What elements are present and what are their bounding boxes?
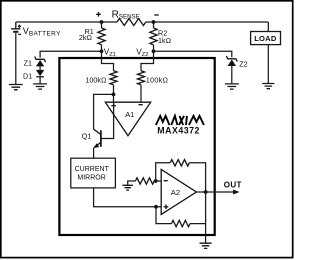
wire 100k left to A1 <box>113 85 115 102</box>
wire top rail mid <box>146 21 268 23</box>
ground Z2 <box>225 84 239 89</box>
node output <box>204 190 208 194</box>
svg-text:1kΩ: 1kΩ <box>158 36 171 45</box>
wire R1 to VZ1 <box>101 45 103 52</box>
plus sign at RS+ <box>96 12 101 17</box>
wire feedback bottom left <box>156 207 172 224</box>
node A2 plus input <box>154 205 158 209</box>
wire top rail left <box>16 21 117 23</box>
wire feedback top right <box>189 163 205 192</box>
wire current mirror to A2 plus <box>94 188 162 207</box>
minus sign at RS- <box>154 14 158 16</box>
svg-text:VZ2: VZ2 <box>136 48 148 59</box>
svg-text:Z1: Z1 <box>24 58 32 67</box>
wire VZ2 jog into IC <box>141 51 154 71</box>
arrow OUT <box>233 190 239 195</box>
resistor R2 <box>150 28 157 45</box>
wire A1 output to Q1 base <box>101 102 114 138</box>
node RS+ <box>100 20 104 24</box>
ground LOAD <box>262 84 274 89</box>
logo MAXIM <box>156 116 204 125</box>
wire R1 stub <box>101 22 103 28</box>
wire A2 minus input <box>156 180 162 182</box>
svg-text:MAX4372: MAX4372 <box>157 125 200 135</box>
wire VZ1 jog into IC <box>102 51 114 71</box>
battery VBATTERY <box>11 22 20 29</box>
op-amp A2 <box>161 169 196 214</box>
svg-text:CURRENT: CURRENT <box>75 166 110 173</box>
svg-text:LOAD: LOAD <box>254 34 277 43</box>
wire Z1 to D1 <box>39 66 41 70</box>
svg-text:VZ1: VZ1 <box>104 48 116 59</box>
node A1 plus input <box>112 93 116 97</box>
resistor 100k right <box>138 71 145 85</box>
svg-text:Z2: Z2 <box>239 59 247 68</box>
wire battery down <box>15 33 17 84</box>
node VZ1 <box>100 49 104 53</box>
svg-text:A1: A1 <box>125 110 134 119</box>
zener Z1 <box>35 57 46 62</box>
wire R2 to VZ2 <box>153 45 155 52</box>
wire D1 to ground <box>39 77 41 84</box>
svg-text:MIRROR: MIRROR <box>77 175 105 182</box>
wire VZ1 to Z1 <box>40 51 101 57</box>
zener Z2 <box>226 56 237 61</box>
wire resistor to A2 minus <box>154 180 156 182</box>
transistor Q1 <box>100 130 102 147</box>
wire feedback top <box>156 163 171 181</box>
ground output divider <box>200 243 212 248</box>
resistor feedback bottom <box>172 220 190 226</box>
ground D1 <box>33 84 47 89</box>
wire Q1 emitter to current mirror <box>93 148 95 159</box>
svg-text:2kΩ: 2kΩ <box>79 33 92 42</box>
ground A2 gain <box>123 185 133 190</box>
svg-text:RSENSE: RSENSE <box>112 9 140 20</box>
svg-text:A2: A2 <box>171 188 180 197</box>
box LOAD <box>251 32 281 45</box>
wire Q1 collector up to node <box>94 94 114 129</box>
wire Z2 to ground <box>231 66 233 83</box>
diode D1 <box>36 70 44 76</box>
resistor 100k left <box>110 71 117 85</box>
op-amp A1 <box>105 102 150 136</box>
resistor RSENSE <box>117 19 146 26</box>
box CURRENT MIRROR <box>71 158 116 188</box>
node VZ2 <box>152 49 156 53</box>
wire A2 output <box>196 191 233 193</box>
node A2 minus input <box>154 179 158 183</box>
svg-text:100kΩ: 100kΩ <box>146 75 168 84</box>
node RS- <box>152 20 156 24</box>
wire feedback bottom right <box>190 192 206 224</box>
wire VZ2 to Z2 <box>154 51 232 57</box>
svg-text:Q1: Q1 <box>82 131 92 140</box>
resistor feedback top <box>170 160 189 166</box>
resistor R1 <box>98 28 105 45</box>
wire to LOAD <box>267 22 269 32</box>
svg-text:100kΩ: 100kΩ <box>85 75 106 84</box>
wire 100k right to A1 <box>140 85 142 102</box>
svg-text:VBATTERY: VBATTERY <box>23 26 61 37</box>
wire LOAD to ground <box>267 45 269 83</box>
resistor A2 gain to ground <box>135 178 154 184</box>
wire R2 stub <box>153 22 155 28</box>
svg-text:D1: D1 <box>23 71 32 80</box>
IC boundary box MAX4372 <box>59 58 214 235</box>
wire output node to ground <box>205 224 207 243</box>
svg-text:OUT: OUT <box>224 181 242 190</box>
wire resistor to ground stub <box>128 181 136 185</box>
ground battery <box>9 85 23 90</box>
